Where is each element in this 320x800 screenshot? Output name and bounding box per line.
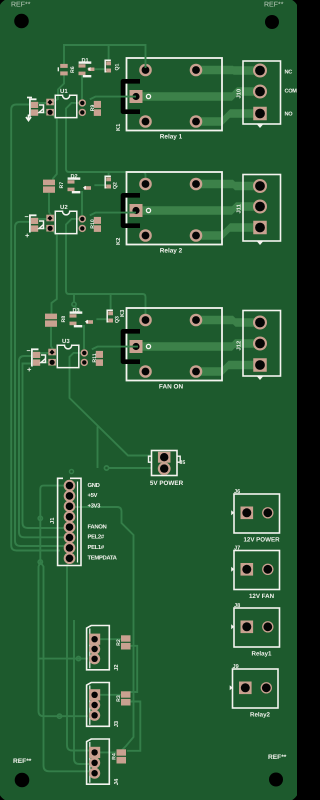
wire net from C2 down left edge to J1 pin7 [15, 222, 64, 546]
svg-text:J11: J11 [237, 203, 243, 213]
capacitor C2 pads [31, 218, 38, 224]
svg-text:U3: U3 [62, 338, 70, 345]
svg-text:FANON: FANON [88, 523, 107, 530]
transistor Q1 outline [105, 60, 111, 71]
relay K2 pin-1 silkscreen circle [146, 208, 150, 212]
U2 pin 1 pad [46, 215, 54, 222]
J5 pin 1 (square) [158, 452, 171, 463]
connector J8 pin 2 [262, 621, 273, 632]
U1 pin 4 pad [79, 109, 86, 116]
svg-text:U2: U2 [60, 204, 68, 211]
connector J10 pin-1 arrow [257, 125, 263, 129]
relay K2 coil pad 1 [139, 178, 152, 191]
diode D3 [70, 311, 83, 313]
optocoupler U3 outline [57, 345, 79, 367]
relay K3 wide trace to NC [196, 316, 262, 327]
resistor R2 pads [121, 635, 131, 641]
wire J4 pin1 to R4 [95, 751, 116, 753]
connector J4 pin 2 [89, 757, 100, 768]
U3 pin 3 pad [81, 349, 88, 356]
U3 pin 1 pad [48, 349, 56, 356]
connector J11 pin-1 arrow [257, 242, 263, 246]
svg-text:Relay 2: Relay 2 [160, 248, 183, 255]
connector J9 pin 1 (square) [239, 682, 252, 695]
connector J1 pin 1 [64, 480, 76, 492]
svg-text:Q2: Q2 [113, 182, 119, 189]
wire TEMPDATA from J1 pin8 down to J4 pin1 [67, 560, 90, 751]
svg-text:J3: J3 [113, 720, 120, 727]
svg-text:REF**: REF** [264, 2, 284, 9]
mounting hole top-left [14, 14, 29, 29]
connector J7 pin 2 [262, 564, 273, 575]
capacitor C1 pads [31, 102, 38, 108]
diode D2 [68, 177, 81, 179]
capacitor C1 silkscreen [30, 99, 37, 116]
relay K2 pad bottom-right [190, 229, 203, 242]
mounting hole bottom-right [269, 773, 283, 787]
connector J2 pin 1 (square) [89, 634, 100, 645]
relay K2 coil pad 2 (square) [130, 204, 143, 217]
relay K1 footprint outline [127, 58, 223, 131]
svg-text:Relay1: Relay1 [252, 650, 273, 657]
wire J2 pin1 to R2 [95, 638, 122, 640]
svg-text:R7: R7 [59, 182, 65, 189]
C1 polarity arrow [26, 115, 31, 121]
connector J7 outline [234, 551, 280, 590]
wire U1 pin3 through footprint down to relay K2 coil [66, 103, 146, 184]
circuit 1 local wires [64, 45, 146, 68]
wire net from C3 down left edge to J1 pin6 [19, 356, 64, 537]
wire rail to J4 pin2 [74, 620, 89, 764]
svg-text:+: + [27, 365, 32, 374]
relay K3 wide trace to NO [196, 361, 262, 376]
relay K1 wide trace to NO [196, 109, 262, 126]
test pad TP3 [86, 320, 93, 324]
wire U3 pin3 diagonal to J5 pin1 [70, 353, 153, 456]
wire R2 to R3 [130, 646, 137, 692]
connector J3 pin 2 [89, 699, 100, 710]
silkscreen text REF top-right [264, 2, 284, 9]
pin1 indicator ring above J1 [70, 470, 74, 474]
svg-text:R2: R2 [116, 639, 122, 646]
U1 pin 2 pad [46, 109, 54, 116]
connector J5 outline [152, 451, 178, 476]
connector J12 pin-1 arrow [257, 377, 263, 381]
svg-text:PEL1#: PEL1# [88, 544, 105, 551]
resistor R1b pads [60, 64, 67, 68]
connector J12 pin 1 [253, 316, 267, 330]
connector J3 pin 3 [89, 710, 100, 721]
capacitor C3 silkscreen [32, 349, 39, 366]
connector J6 pin 1 (square) [241, 507, 254, 520]
relay K3 coil pad 1 [139, 314, 152, 327]
wire branch to J2 pin3 [39, 658, 89, 660]
relay K1 coil pad 2 (square) [130, 90, 143, 103]
U2 pin 3 pad [79, 215, 86, 222]
resistor R3a pads [96, 351, 103, 358]
svg-text:PEL2#: PEL2# [88, 534, 105, 541]
wire left rail to J3 pin3 [39, 562, 89, 716]
connector J1 pin 4 [64, 511, 76, 523]
connector J8 pin 1 (square) [241, 621, 254, 634]
connector J1 pin 3 [64, 501, 76, 513]
svg-text:R9: R9 [90, 105, 96, 112]
relay K1 pad bottom-left [139, 115, 152, 128]
connector J11 outline [243, 175, 281, 242]
svg-text:J6: J6 [234, 489, 240, 495]
svg-text:GND: GND [88, 482, 100, 489]
wire net down left edge to J1 pin5 (FANON) [23, 364, 65, 529]
connector J4 outline [87, 739, 110, 784]
svg-text:K1: K1 [116, 123, 122, 131]
mounting hole top-right [265, 15, 279, 29]
svg-text:J9: J9 [233, 664, 239, 670]
connector J7 pin-1 arrow [231, 567, 234, 572]
svg-text:12V POWER: 12V POWER [243, 536, 280, 543]
svg-text:R3: R3 [116, 695, 122, 702]
relay K2 pad top-right [190, 178, 203, 191]
relay K2 wide trace to NC [196, 180, 262, 191]
connector J2 pin 3 [89, 653, 100, 664]
wire stub to via above D3 [74, 294, 81, 312]
connector J8 outline [234, 608, 280, 647]
svg-text:J10: J10 [236, 89, 243, 99]
via +5V [104, 466, 108, 470]
wire J3 pin1 to R3 [95, 694, 121, 696]
diode D1 [79, 61, 92, 63]
optocoupler U2 outline [55, 211, 77, 233]
connector J9 outline [233, 669, 279, 708]
relay K1 pad bottom-right [190, 115, 203, 128]
svg-text:REF**: REF** [268, 754, 287, 761]
svg-text:D3: D3 [73, 308, 80, 314]
svg-text:−: − [25, 214, 29, 221]
capacitor C2 silkscreen [30, 215, 37, 232]
svg-text:5V POWER: 5V POWER [150, 480, 184, 487]
wire R3 to R4 [127, 702, 140, 751]
connector J7 pin 1 (square) [241, 563, 254, 576]
relay K2 black coil bracket [123, 195, 140, 225]
svg-text:R11: R11 [92, 353, 98, 362]
Q1 pad 2 [106, 69, 111, 73]
connector J1 pin 5 [64, 521, 76, 533]
capacitor C3 pads [33, 352, 40, 358]
circuit 3 local wires [110, 294, 112, 313]
U1 pin 3 pad [79, 99, 86, 106]
svg-text:K3: K3 [119, 309, 126, 317]
svg-text:D2: D2 [71, 174, 78, 180]
Q1 pad 1 [106, 61, 111, 65]
connector J10 pin 3 (square) [253, 107, 267, 121]
relay K1 wide trace to NC [196, 66, 262, 75]
connector J12 pin 2 [253, 337, 267, 351]
U2 pin 4 pad [79, 225, 86, 232]
svg-text:J5: J5 [180, 460, 186, 466]
connector J2 pin 2 [89, 643, 100, 654]
test pad TP2 [84, 186, 91, 190]
relay K1 coil pad 1 [139, 64, 152, 77]
svg-text:R10: R10 [90, 219, 96, 229]
U3 pin 2 pad [48, 359, 56, 366]
relay K2 wide trace to NO [196, 223, 262, 240]
relay K3 black coil bracket [123, 331, 140, 361]
svg-text:FAN ON: FAN ON [159, 384, 184, 391]
svg-text:+: + [25, 231, 30, 240]
relay K3 pad top-right [190, 314, 203, 327]
connector J10 pin 2 [253, 85, 267, 99]
svg-text:REF**: REF** [13, 758, 32, 765]
connector J11 pin 1 [253, 179, 267, 193]
svg-text:NC: NC [285, 70, 293, 76]
svg-text:J8: J8 [234, 603, 240, 609]
connector J9 pin 2 [261, 682, 272, 693]
resistor R4 pads [117, 749, 127, 755]
wire U2 pin2 to R8 [50, 228, 57, 314]
svg-text:COM: COM [285, 89, 298, 95]
relay K3 wide trace to COM [136, 339, 262, 351]
svg-text:K2: K2 [115, 238, 122, 245]
svg-text:NO: NO [285, 112, 294, 118]
via on J2 pin3 branch [76, 657, 80, 661]
relay K2 pad bottom-left [139, 229, 152, 242]
via left rail top [38, 560, 42, 564]
connector J1 pin 7 [64, 542, 76, 554]
U2 pin 2 pad [46, 225, 54, 232]
connector J1 pin 6 [64, 532, 76, 544]
wire via to J5 pin2 [108, 467, 152, 469]
svg-text:R4: R4 [112, 753, 118, 760]
transistor Q3 outline [107, 310, 113, 321]
svg-text:−: − [27, 348, 31, 355]
via GND mid [38, 516, 42, 520]
connector J6 pin-1 arrow [231, 510, 234, 515]
silkscreen text REF top-left [11, 2, 31, 9]
svg-text:J12: J12 [236, 341, 243, 351]
mounting hole bottom-left [15, 773, 30, 788]
connector J1 pin 8 [64, 552, 76, 564]
svg-text:Relay 1: Relay 1 [160, 134, 183, 141]
relay K3 footprint outline [127, 308, 223, 381]
svg-text:TEMPDATA: TEMPDATA [88, 554, 118, 561]
relay K3 coil pad 2 (square) [130, 340, 143, 353]
relay K2 footprint outline [127, 172, 223, 245]
connector J2 outline [87, 626, 110, 670]
wire vertical branch to +5V via [97, 427, 99, 469]
transistor Q2 outline [105, 176, 111, 187]
Q2 pad 2 [106, 185, 111, 189]
svg-text:D1: D1 [82, 58, 89, 64]
connector J12 pin 3 (square) [253, 358, 267, 372]
R1b pin1 tick [57, 67, 59, 71]
via on J3 pin3 branch [57, 714, 61, 718]
relay K3 pad bottom-left [139, 365, 152, 378]
U3 pin 4 pad [81, 359, 88, 366]
connector J10 pin 1 [253, 64, 267, 78]
connector J8 pin-1 arrow [231, 624, 234, 629]
wire net from C1 down left edge to J1 [11, 105, 60, 551]
svg-text:Q1: Q1 [115, 63, 121, 70]
Q3 pad 2 [108, 319, 113, 323]
test pad TP1 [88, 68, 94, 72]
resistor R1a pads [94, 101, 101, 108]
svg-text:REF**: REF** [11, 2, 31, 9]
relay K2 wide trace to COM [136, 202, 262, 215]
relay K1 black coil bracket [123, 81, 140, 111]
wire U2 pin3 through footprint down to relay K3 coil [66, 219, 146, 320]
svg-text:+5V: +5V [88, 492, 98, 499]
connector J10 outline [243, 61, 281, 124]
via above D3 [72, 302, 76, 306]
J5 pin 2 [158, 462, 171, 475]
connector J3 outline [87, 683, 110, 727]
optocoupler U1 outline [55, 95, 77, 117]
wire +3V3 from J1 pin3 down right column [75, 507, 134, 750]
connector J11 pin 2 [253, 200, 267, 214]
svg-text:J4: J4 [114, 778, 120, 785]
svg-text:R6: R6 [70, 66, 76, 73]
connector J6 outline [234, 494, 280, 533]
wire second rail to J4 pin3 [40, 562, 90, 771]
resistor R3b pads [45, 314, 57, 320]
connector J1 outline [58, 478, 81, 565]
relay K3 pin-1 silkscreen circle [146, 344, 150, 348]
connector J12 outline [243, 311, 281, 377]
resistor R3 pads [121, 691, 131, 697]
Q3 pad 1 [108, 311, 113, 315]
relay K1 pin-1 silkscreen circle [146, 94, 150, 98]
svg-text:12V FAN: 12V FAN [249, 593, 275, 600]
relay K3 pad bottom-right [190, 365, 203, 378]
svg-text:R8: R8 [61, 316, 67, 323]
svg-text:J1: J1 [50, 517, 56, 524]
resistor R2a pads [94, 217, 101, 224]
connector J9 pin-1 arrow [230, 685, 233, 690]
connector J3 pin 1 (square) [89, 689, 100, 700]
connector J1 pin 2 [64, 490, 76, 502]
svg-text:J7: J7 [234, 546, 240, 552]
U1 pin 1 pad [46, 99, 54, 106]
connector J6 pin 2 [262, 507, 273, 518]
wire GND from J1 pin1 down [40, 486, 64, 562]
connector J4 pin 3 [89, 768, 100, 779]
resistor R2b pads [43, 180, 55, 186]
relay K1 pad top-right [190, 64, 203, 77]
svg-text:+3V3: +3V3 [88, 503, 102, 510]
svg-text:J2: J2 [113, 664, 120, 670]
connector J11 pin 3 (square) [253, 221, 267, 235]
relay K1 wide trace to COM [136, 87, 262, 101]
svg-text:U1: U1 [60, 88, 68, 95]
svg-text:Q3: Q3 [115, 316, 121, 323]
wire U1 pin2 to R7 [50, 112, 57, 181]
circuit 2 local wires [108, 172, 110, 179]
svg-text:Relay2: Relay2 [250, 711, 271, 718]
connector J4 pin 1 (square) [89, 747, 100, 758]
Q2 pad 1 [106, 177, 111, 181]
